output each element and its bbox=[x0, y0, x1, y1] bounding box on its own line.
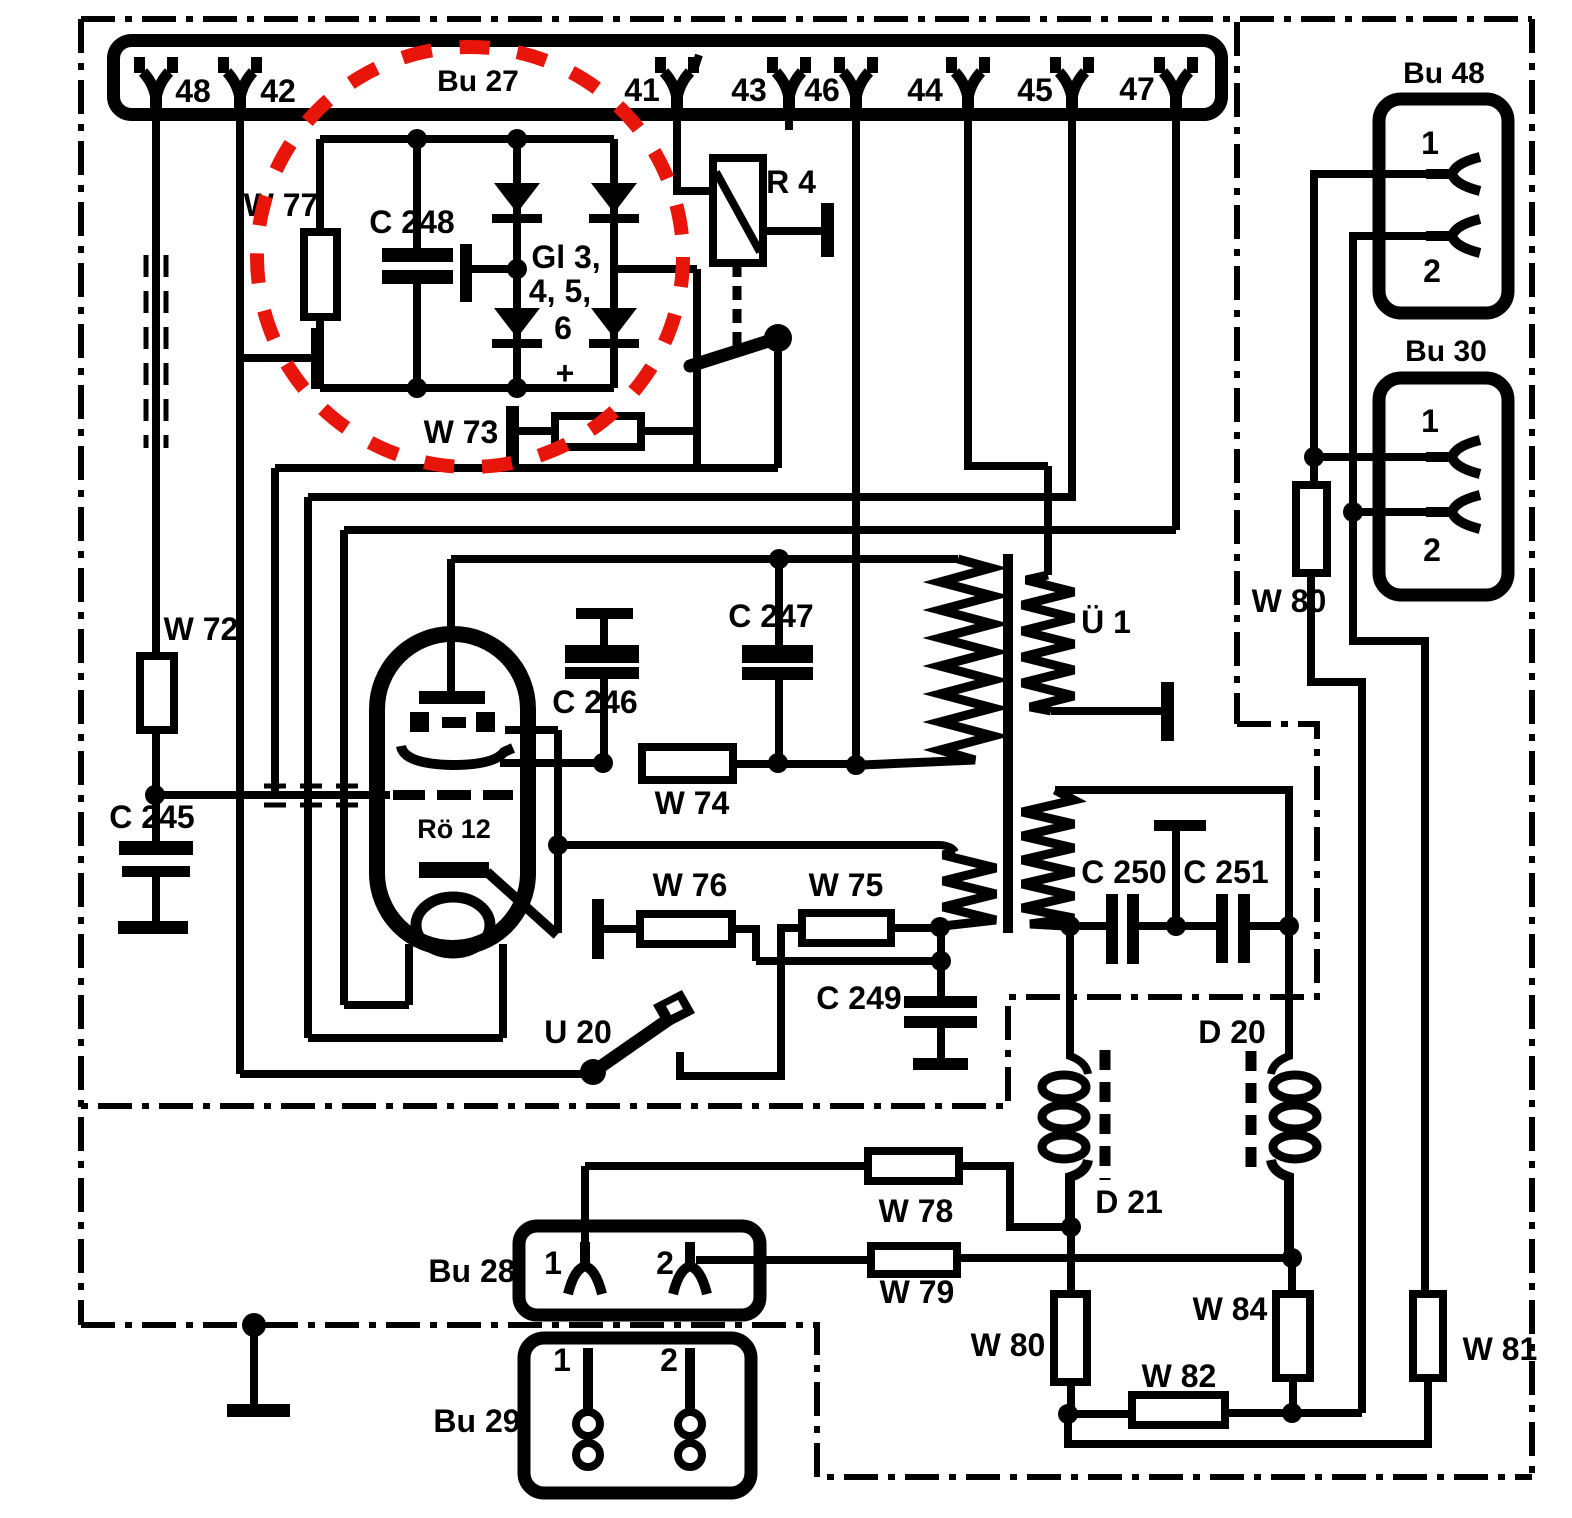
wire Ü1 secondary to ground bbox=[1051, 707, 1161, 715]
svg-text:43: 43 bbox=[731, 72, 767, 108]
node dot bridge left mid bbox=[507, 259, 527, 279]
mechanical link R4 to switch (dashed) bbox=[733, 263, 742, 348]
wire C251 node down to D20 bbox=[1271, 926, 1289, 1074]
wire W80 lower bottom bbox=[1067, 1382, 1075, 1415]
wire W81 bottom row bbox=[1068, 1378, 1428, 1444]
diode Gl6 (bottom right) bbox=[591, 308, 637, 338]
pin Bu29-1 bbox=[583, 1348, 593, 1412]
svg-text:C 247: C 247 bbox=[728, 598, 813, 634]
svg-text:1: 1 bbox=[544, 1245, 562, 1281]
connector strip Bu 27 bbox=[114, 41, 1222, 115]
svg-text:4, 5,: 4, 5, bbox=[529, 273, 591, 309]
resistor W84 bbox=[1276, 1294, 1310, 1378]
wire W76 right jog down bbox=[732, 929, 756, 961]
resistor W82 bbox=[1132, 1395, 1225, 1425]
svg-text:44: 44 bbox=[907, 72, 943, 108]
wire U20 fixed contact bbox=[680, 961, 781, 1076]
svg-text:41: 41 bbox=[624, 72, 660, 108]
wire loop2 right leg to tube bbox=[499, 944, 507, 1038]
coil D20 bbox=[1273, 1075, 1317, 1099]
wire C250 to C251 bbox=[1139, 922, 1216, 930]
wire stub to terminal bar on pin42 wire bbox=[240, 354, 312, 362]
wire W75 right lead bbox=[891, 924, 940, 932]
wire pin45 down bbox=[1048, 121, 1072, 497]
svg-text:W 81: W 81 bbox=[1463, 1331, 1538, 1367]
svg-text:48: 48 bbox=[175, 73, 211, 109]
tube cathode arc bbox=[401, 746, 513, 765]
tube anode lead bbox=[447, 559, 455, 691]
svg-text:W 84: W 84 bbox=[1193, 1291, 1268, 1327]
tick mark right of pin 41 bbox=[694, 55, 699, 70]
wire diode column 1 bbox=[513, 139, 521, 388]
shield dashes on grid row bbox=[264, 784, 380, 789]
wire row3 heater rail to pin47 bbox=[344, 526, 1176, 534]
switch arm bbox=[690, 338, 778, 366]
wire W73 bar to resistor bbox=[519, 427, 555, 435]
node dot cathode rail bbox=[548, 835, 568, 855]
resistor W75 bbox=[802, 913, 891, 943]
wire row y=961 bbox=[756, 957, 941, 965]
wire Bu28-1 up to W78 row bbox=[581, 1166, 589, 1246]
svg-text:C 249: C 249 bbox=[816, 980, 901, 1016]
resistor W78 bbox=[868, 1151, 959, 1181]
node dot Ü1 primary bottom bbox=[846, 755, 866, 775]
wire pin44 down bbox=[968, 121, 1048, 466]
wire C250 node down to D21 bbox=[1070, 926, 1088, 1074]
pin 45 fork bbox=[1050, 57, 1094, 121]
wire W82 right lead bbox=[1225, 1409, 1362, 1417]
svg-text:W 82: W 82 bbox=[1142, 1358, 1217, 1394]
svg-text:W 74: W 74 bbox=[655, 785, 730, 821]
wire pin46 down to node bbox=[852, 121, 860, 765]
wire D20 node to W84 bbox=[1288, 1258, 1296, 1294]
capacitor C248 bbox=[382, 248, 453, 262]
contact fork Bu48-1 bbox=[1426, 157, 1480, 191]
wire screen exit bbox=[505, 726, 558, 734]
wire W73 right lead bbox=[641, 427, 697, 435]
pin 44 fork bbox=[946, 57, 990, 121]
electrolytic plate bar of C248 bbox=[460, 244, 472, 302]
svg-text:Ü 1: Ü 1 bbox=[1081, 604, 1131, 640]
switch pivot dot bbox=[764, 324, 792, 352]
wire loop3 left leg bbox=[340, 530, 348, 1005]
svg-text:42: 42 bbox=[260, 73, 296, 109]
ground bar chassis bbox=[227, 1404, 290, 1417]
svg-text:W 73: W 73 bbox=[424, 414, 499, 450]
resistor W80 (lower) bbox=[1054, 1294, 1087, 1382]
terminal bar above C246 bbox=[576, 608, 633, 619]
node dot detector center bbox=[1166, 916, 1186, 936]
svg-text:1: 1 bbox=[1421, 403, 1439, 439]
frame right dash-dot border bbox=[1529, 19, 1535, 1477]
capacitor C250 bbox=[1106, 894, 1118, 964]
connector Bu 28 box bbox=[519, 1226, 760, 1315]
pin Bu29-2 bbox=[685, 1348, 695, 1412]
coil D21 bbox=[1042, 1075, 1086, 1099]
wire bridge bottom rail bbox=[320, 384, 614, 392]
resistor W76 bbox=[640, 914, 732, 944]
wire W77 bottom bbox=[316, 317, 324, 388]
svg-text:Gl 3,: Gl 3, bbox=[531, 239, 600, 275]
node dot Bu30-2 bbox=[1343, 502, 1363, 522]
IF transformer left winding bbox=[940, 852, 996, 926]
transformer Ü1 secondary winding bbox=[1022, 575, 1074, 711]
wire pin42 down bbox=[236, 121, 244, 1074]
svg-text:C 248: C 248 bbox=[369, 204, 454, 240]
wire Bu28-2 row to W79 bbox=[696, 1256, 871, 1264]
svg-text:W 75: W 75 bbox=[809, 867, 884, 903]
wire row1 (W73/switch row) bbox=[275, 464, 778, 472]
wire W82 left lead bbox=[1068, 1410, 1132, 1418]
svg-text:U 20: U 20 bbox=[544, 1014, 612, 1050]
core dashes D21 bbox=[1100, 1050, 1111, 1180]
diode Gl5 (bottom left) bbox=[494, 308, 540, 338]
IF transformer right winding bbox=[1022, 790, 1074, 926]
wire Bu28-2 to row bbox=[686, 1246, 694, 1260]
node dot bridge bottom right bbox=[507, 378, 527, 398]
tube heater bar bbox=[419, 862, 489, 878]
svg-text:Bu 28: Bu 28 bbox=[428, 1253, 515, 1289]
tube screen grid dashes bbox=[410, 712, 429, 732]
wire W79 right lead to D20 node bbox=[957, 1254, 1292, 1262]
shield partition dash-dot path around IF section bbox=[81, 724, 1317, 1106]
wire W80 bottom jog bbox=[1311, 573, 1362, 1413]
svg-text:D 21: D 21 bbox=[1095, 1184, 1163, 1220]
wire C251 right lead bbox=[1250, 922, 1289, 930]
svg-text:Bu 48: Bu 48 bbox=[1403, 57, 1485, 90]
switch U20 pivot dot bbox=[580, 1059, 606, 1085]
svg-text:W 76: W 76 bbox=[653, 867, 728, 903]
svg-text:W 72: W 72 bbox=[164, 611, 239, 647]
wire Bu30-1 lead bbox=[1314, 453, 1426, 461]
wire W78 row bbox=[585, 1162, 868, 1170]
node dot C250 left bbox=[1060, 916, 1080, 936]
node dot bridge top right bbox=[507, 129, 527, 149]
node dot W72/C245/grid bbox=[145, 785, 165, 805]
svg-text:C 245: C 245 bbox=[109, 799, 194, 835]
chassis dash-dot line y=1325 bbox=[81, 1325, 1532, 1477]
switch U20 lever hook bbox=[653, 990, 695, 1028]
wire pin48 down to W72 bbox=[152, 121, 160, 656]
svg-text:1: 1 bbox=[1421, 125, 1439, 161]
ground bar under C249 bbox=[913, 1058, 968, 1070]
terminal bar ground of Ü1 bbox=[1161, 682, 1174, 741]
diode Gl3 (top left) bbox=[494, 183, 540, 213]
wire C247 top bbox=[775, 559, 783, 645]
wire grid row from node to tube bbox=[155, 791, 390, 799]
frame top dash-dot border bbox=[81, 16, 1532, 22]
pin 47 fork bbox=[1154, 57, 1198, 121]
svg-text:6: 6 bbox=[554, 310, 572, 346]
contact fork Bu30-1 bbox=[1426, 440, 1480, 474]
resistor W79 bbox=[871, 1246, 957, 1274]
svg-text:47: 47 bbox=[1119, 71, 1155, 107]
svg-text:45: 45 bbox=[1017, 72, 1053, 108]
svg-text:+: + bbox=[556, 355, 575, 391]
wire C248 bottom bbox=[413, 284, 421, 388]
wire x=1048 down to Ü1 secondary bbox=[1044, 466, 1052, 575]
svg-text:46: 46 bbox=[804, 72, 840, 108]
wire chassis ground stem bbox=[250, 1325, 258, 1404]
pin 46 fork bbox=[834, 57, 878, 121]
contact fork Bu28-1 bbox=[568, 1242, 602, 1294]
node dot C249 top bbox=[931, 951, 951, 971]
resistor W73 bbox=[555, 416, 641, 447]
wire C249 bottom bbox=[937, 1028, 945, 1058]
wire U20 row from pin42 wire bbox=[240, 1070, 593, 1078]
wire vertical x=558 bbox=[554, 730, 562, 933]
wire diode column 2 bbox=[610, 139, 618, 388]
wire W74 right lead bbox=[733, 760, 855, 768]
wire pin43 stub bbox=[785, 114, 793, 130]
resistor W77 bbox=[304, 232, 337, 317]
capacitor C246 bbox=[565, 645, 639, 663]
shield dashes on pin48 wire bbox=[144, 255, 149, 448]
node dot D20 bottom bbox=[1282, 1248, 1302, 1268]
potentiometer R4 bbox=[713, 158, 763, 263]
wire Bu30-2 down and right bbox=[1353, 512, 1425, 1294]
svg-text:1: 1 bbox=[553, 1342, 571, 1378]
tube heater pin left bbox=[405, 944, 413, 1005]
svg-text:Bu 29: Bu 29 bbox=[433, 1403, 520, 1439]
svg-text:W 80: W 80 bbox=[1252, 583, 1327, 619]
wire loop2 bottom bbox=[308, 1034, 503, 1042]
node dot C247/W74 bbox=[768, 753, 788, 773]
node dot D21 bottom bbox=[1061, 1217, 1081, 1237]
tube grid dashes (control grid) bbox=[393, 790, 425, 800]
wire C248 column bbox=[413, 139, 421, 248]
capacitor C251 bbox=[1216, 894, 1228, 963]
wire loop3 bottom bbox=[344, 1001, 409, 1009]
wire W84 bottom bbox=[1289, 1378, 1297, 1413]
svg-text:W 78: W 78 bbox=[879, 1193, 954, 1229]
wire C247 bottom bbox=[775, 680, 783, 763]
switch U20 lever bbox=[593, 1017, 672, 1072]
wire R4 wiper lead bbox=[763, 227, 822, 235]
terminal bar on pin42 stub bbox=[311, 328, 324, 389]
capacitor C245 bbox=[119, 841, 193, 855]
node dot IF left winding bottom / W75 bbox=[930, 917, 950, 937]
wire D21 node down through W79 row bbox=[1067, 1227, 1075, 1294]
svg-text:C 250: C 250 bbox=[1081, 854, 1166, 890]
wire C245 to ground bbox=[152, 877, 160, 921]
svg-text:C 246: C 246 bbox=[552, 684, 637, 720]
wire node to node vertical bbox=[937, 927, 945, 996]
wire W72 bottom to node bbox=[152, 730, 160, 841]
wire pin41 down bbox=[677, 121, 713, 191]
wire row4 anode rail bbox=[451, 555, 958, 563]
svg-text:C 251: C 251 bbox=[1183, 854, 1268, 890]
wire C246 bottom bbox=[600, 679, 608, 763]
pin 42 fork bbox=[218, 57, 262, 121]
contact fork Bu48-2 bbox=[1426, 219, 1480, 253]
svg-text:2: 2 bbox=[1423, 253, 1441, 289]
connector Bu 30 box bbox=[1379, 378, 1508, 595]
pin 48 fork bbox=[134, 57, 178, 121]
capacitor C249 bbox=[904, 996, 977, 1008]
wire W75 left leg up bbox=[781, 928, 802, 961]
svg-text:W 79: W 79 bbox=[880, 1274, 955, 1310]
svg-text:R 4: R 4 bbox=[766, 164, 816, 200]
contact fork Bu30-2 bbox=[1426, 495, 1480, 529]
wire pin47 down to row3 bbox=[1172, 121, 1180, 530]
ground bar under C245 bbox=[118, 921, 188, 934]
wire center terminal stem bbox=[1172, 831, 1180, 926]
svg-text:Rö 12: Rö 12 bbox=[417, 814, 491, 844]
node dot W84 bottom bbox=[1282, 1403, 1302, 1423]
node dot bridge top left bbox=[407, 129, 427, 149]
tube Rö 12 envelope bbox=[377, 634, 528, 948]
connector Bu 29 box bbox=[524, 1338, 751, 1493]
wire C250 left lead bbox=[1063, 922, 1106, 930]
transformer Ü1 core bbox=[1003, 554, 1013, 933]
wire bridge right mid node to x=697 bbox=[614, 265, 697, 273]
resistor W80 (upper) bbox=[1296, 485, 1327, 573]
terminal bar at R4 wiper bbox=[821, 203, 834, 257]
wire row2 heater rail bbox=[308, 493, 1048, 501]
core dashes D20 bbox=[1246, 1051, 1257, 1175]
tube anode plate bbox=[419, 691, 485, 704]
svg-text:Bu 27: Bu 27 bbox=[437, 65, 519, 98]
wire loop3 right leg to tube bbox=[405, 944, 413, 1005]
tube heater circle bbox=[416, 897, 490, 953]
wire vertical x=697 down to row1 bbox=[693, 269, 701, 468]
wire loop2 left leg bbox=[304, 497, 312, 1038]
resistor W81 bbox=[1413, 1294, 1443, 1378]
node dot C251 right bbox=[1279, 916, 1299, 936]
wire Bu48-2 lead bbox=[1353, 236, 1426, 512]
wire C246 top stem bbox=[600, 619, 608, 645]
terminal bar left of W76 bbox=[592, 899, 604, 959]
node dot anode rail / C247 bbox=[769, 549, 789, 569]
transformer Ü1 primary winding bbox=[862, 559, 993, 765]
node dot chassis ground bbox=[242, 1313, 266, 1337]
tube heater diagonal lead bbox=[487, 872, 557, 935]
node dot W80 top bbox=[1304, 447, 1324, 467]
node dot W82 left bbox=[1058, 1404, 1078, 1424]
wire bridge left column (to W77) bbox=[316, 139, 324, 232]
frame left dash-dot border bbox=[78, 19, 84, 1325]
resistor W74 bbox=[642, 747, 733, 780]
svg-text:W 80: W 80 bbox=[971, 1327, 1046, 1363]
node dot bridge bottom left bbox=[407, 378, 427, 398]
contact fork Bu28-2 bbox=[673, 1242, 707, 1294]
shield partition dash-dot vertical at x=1237 bbox=[1234, 22, 1240, 724]
svg-text:2: 2 bbox=[1423, 532, 1441, 568]
wire Bu48-1 lead bbox=[1314, 174, 1426, 485]
svg-text:D 20: D 20 bbox=[1198, 1014, 1266, 1050]
wire cathode rail y=845 bbox=[558, 845, 955, 852]
wire W78 right jog to D21 node bbox=[959, 1166, 1071, 1227]
wire electrolytic bar to bridge left mid node bbox=[466, 265, 517, 273]
svg-text:2: 2 bbox=[656, 1245, 674, 1281]
svg-text:Bu 30: Bu 30 bbox=[1405, 335, 1487, 368]
wire cathode exit row to C246 bbox=[500, 759, 604, 767]
pin 43 fork bbox=[767, 57, 811, 121]
wire bridge top rail bbox=[320, 135, 614, 143]
svg-text:2: 2 bbox=[660, 1342, 678, 1378]
pin 41 fork bbox=[655, 57, 699, 121]
tube heater pin right bbox=[499, 944, 507, 1038]
capacitor C247 bbox=[742, 645, 813, 663]
detector center terminal bar bbox=[1154, 820, 1206, 831]
wire switch pivot down to row1 bbox=[774, 345, 782, 468]
connector Bu 48 box bbox=[1379, 99, 1508, 313]
node dot C246/W74 bbox=[593, 753, 613, 773]
wire Bu30-2 lead bbox=[1353, 508, 1426, 516]
wire loop1 left leg bbox=[271, 468, 279, 795]
diode Gl4 (top right) bbox=[591, 183, 637, 213]
red highlight dashed ellipse bbox=[257, 47, 683, 467]
wire W76 left lead bbox=[604, 925, 640, 933]
terminal bar W73 bbox=[506, 406, 519, 465]
resistor W72 bbox=[140, 656, 174, 730]
wire IF secondary top to C251 right bbox=[1055, 790, 1289, 920]
